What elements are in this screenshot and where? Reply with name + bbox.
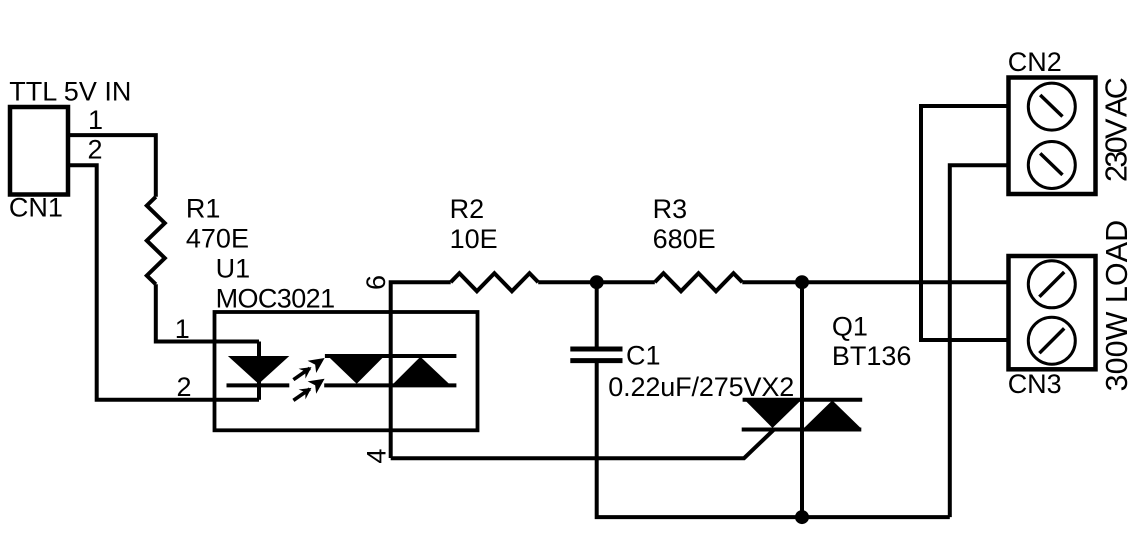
triac U1 top line: [325, 354, 457, 358]
svg-text:2: 2: [177, 372, 192, 402]
svg-text:680E: 680E: [653, 224, 716, 254]
svg-text:2: 2: [88, 135, 103, 165]
triac Q1 top line: [743, 398, 863, 402]
svg-text:CN3: CN3: [1008, 369, 1062, 399]
CN3 screw 1: [1028, 261, 1075, 308]
wire CN2 pin 1 to CN3 pin 2: [921, 106, 1009, 340]
optocoupler U1 box MOC3021: [215, 312, 478, 430]
svg-text:R1: R1: [186, 194, 221, 224]
svg-text:0.22uF/275VX2: 0.22uF/275VX2: [608, 372, 794, 402]
wire CN1 pin 2 down: [68, 165, 259, 400]
wire R1 bottom to U1 pin 1: [156, 284, 259, 341]
LED anode bar inside U1: [257, 342, 261, 400]
svg-text:BT136: BT136: [832, 341, 912, 371]
Q1 triac right triangle: [803, 400, 861, 428]
svg-text:1: 1: [175, 314, 190, 344]
wire Q1 MT2 vertical: [800, 282, 804, 517]
LED light arrow 2: [289, 373, 329, 407]
CN2 screw 1: [1028, 83, 1075, 130]
junction dot Q1-bottom rail: [795, 510, 809, 524]
svg-text:230V AC: 230V AC: [1099, 78, 1132, 182]
svg-text:300W LOAD: 300W LOAD: [1100, 220, 1132, 392]
resistor R1: [147, 197, 165, 284]
resistor R2: [451, 273, 539, 291]
junction dot R3-Q1: [795, 275, 809, 289]
junction dot R2-R3-C1: [590, 275, 604, 289]
LED triangle in U1: [228, 356, 289, 384]
U1 phototriac left triangle: [328, 356, 385, 384]
capacitor C1 plates: [570, 347, 622, 352]
LED cathode bar: [227, 383, 290, 387]
connector CN1: [10, 107, 68, 195]
Q1 triac left triangle: [745, 400, 802, 428]
svg-text:TTL 5V IN: TTL 5V IN: [9, 77, 131, 107]
svg-text:CN1: CN1: [9, 193, 63, 223]
connector CN3: [1009, 256, 1096, 369]
svg-text:1: 1: [88, 105, 103, 135]
wire CN2 pin 2 to bottom rail: [950, 165, 1009, 517]
svg-text:MOC3021: MOC3021: [216, 284, 336, 314]
svg-text:4: 4: [361, 449, 391, 464]
triac Q1 bottom line: [742, 428, 862, 432]
LED light arrow 1: [289, 352, 329, 386]
svg-text:U1: U1: [216, 253, 251, 283]
wire R3 to CN3 pin 1: [742, 280, 1008, 284]
wire C1 bottom lead to bottom rail: [597, 362, 950, 517]
svg-text:R2: R2: [450, 194, 485, 224]
resistor R3: [655, 273, 743, 291]
wire U1 pin 6 vertical through box: [391, 282, 451, 458]
svg-text:Q1: Q1: [832, 312, 868, 342]
connector CN2: [1009, 78, 1096, 195]
wire C1 top lead: [595, 282, 599, 347]
wire R2 to R3: [538, 280, 655, 284]
CN2 screw 2: [1028, 142, 1075, 189]
wire U1 pin 4 to Q1 gate: [391, 430, 774, 459]
U1 phototriac right triangle: [392, 357, 451, 386]
svg-text:R3: R3: [653, 194, 688, 224]
svg-text:470E: 470E: [186, 224, 249, 254]
svg-text:6: 6: [361, 275, 391, 290]
triac U1 bottom line: [324, 383, 456, 387]
wire CN1 pin 1 to R1 top: [68, 135, 156, 197]
svg-text:C1: C1: [626, 340, 661, 370]
CN3 screw 2: [1028, 317, 1075, 364]
svg-text:CN2: CN2: [1008, 47, 1062, 77]
svg-text:10E: 10E: [450, 224, 498, 254]
